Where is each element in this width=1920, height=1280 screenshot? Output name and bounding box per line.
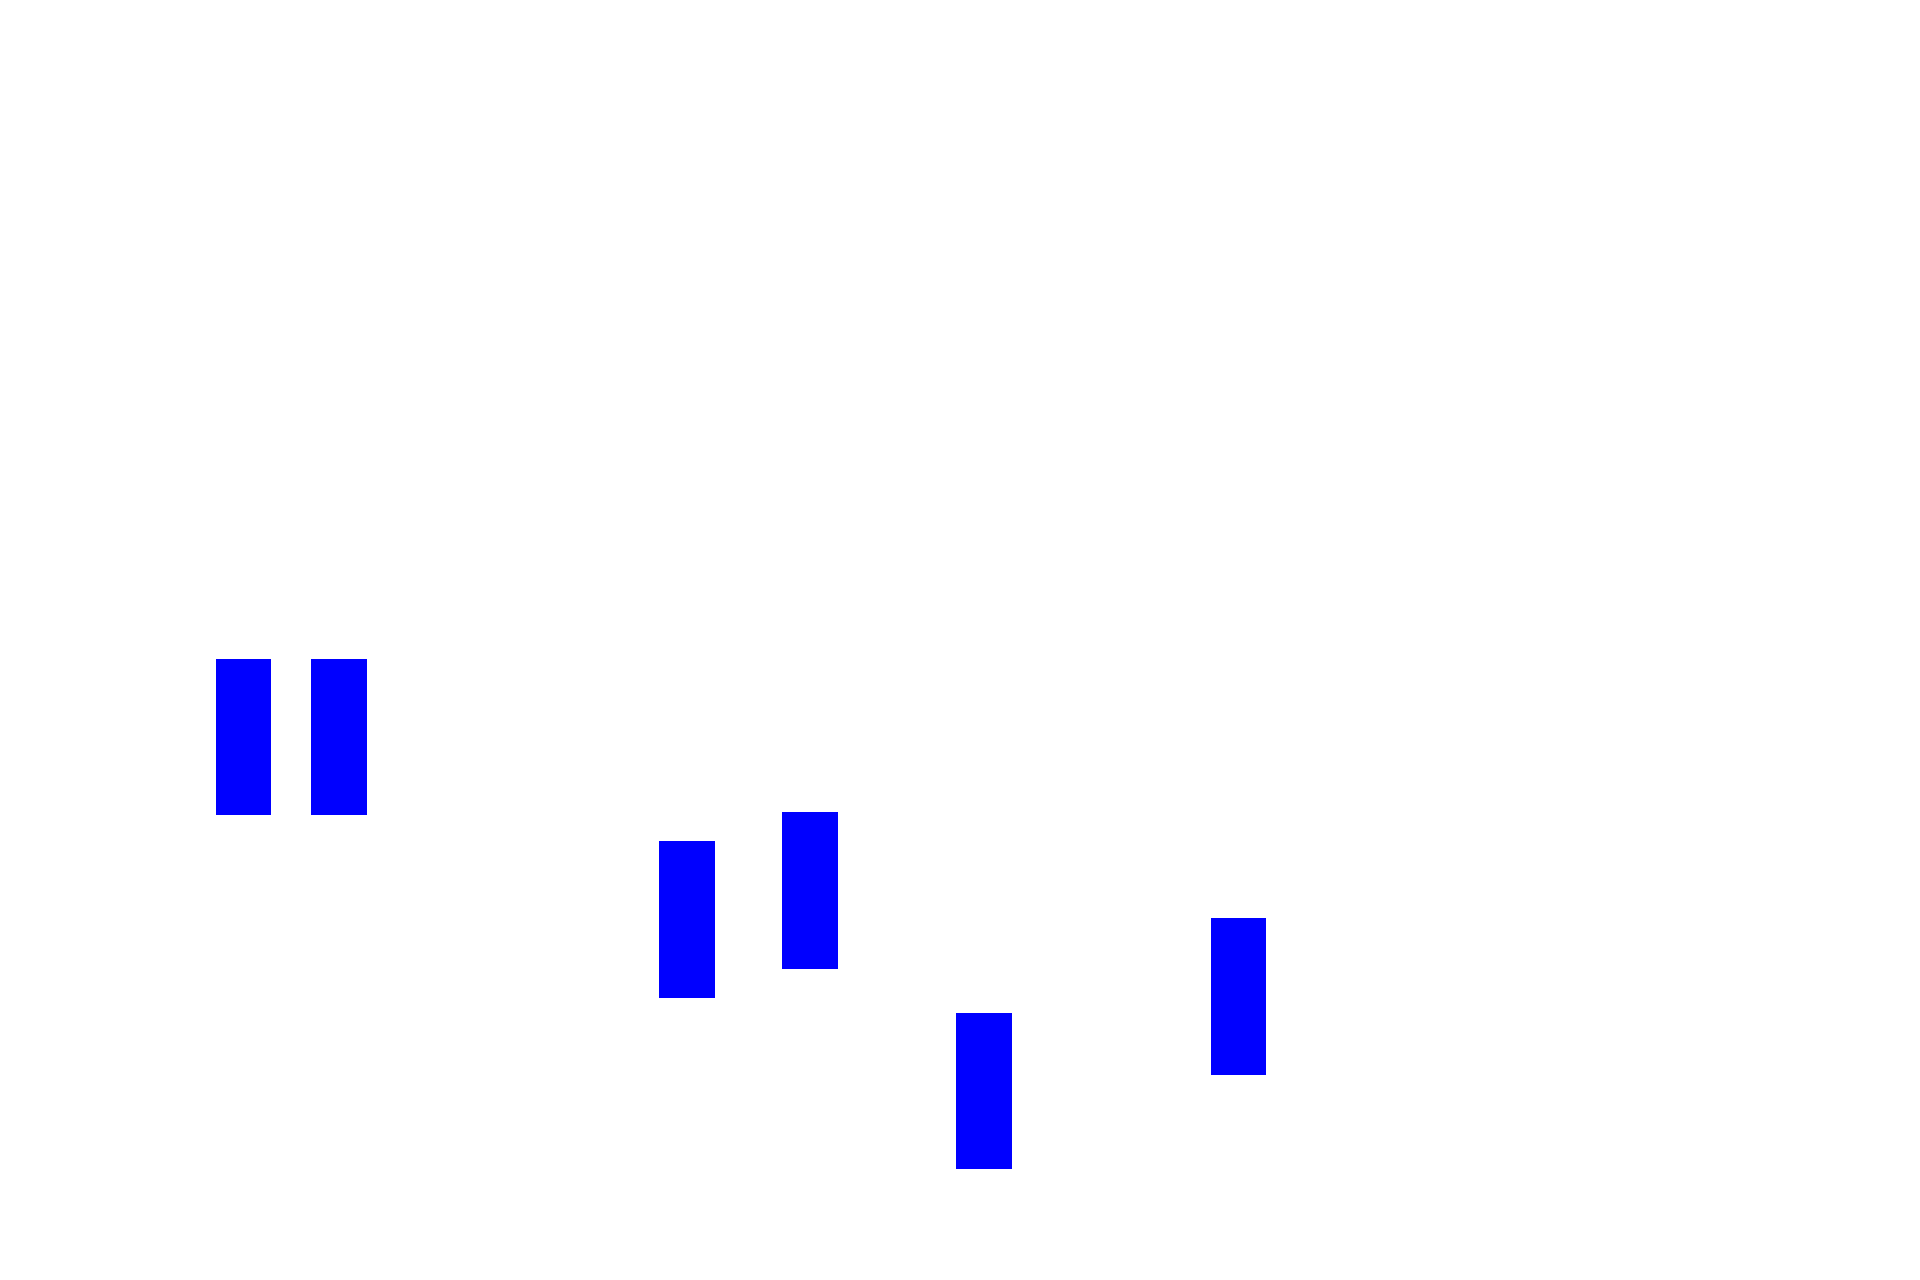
bar 6 [1211, 918, 1266, 1075]
bar 1 [216, 659, 271, 815]
bar 3 [659, 841, 715, 998]
bar 5 [956, 1013, 1012, 1169]
bar 4 [782, 812, 838, 969]
bar 2 [311, 659, 367, 815]
